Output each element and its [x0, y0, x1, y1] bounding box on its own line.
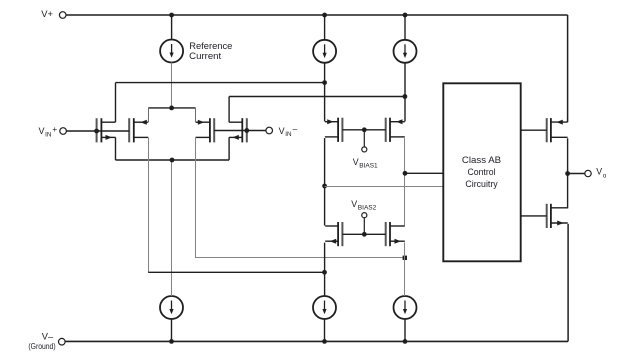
svg-text:Circuitry: Circuitry	[465, 178, 498, 189]
svg-text:V+: V+	[41, 8, 53, 19]
svg-text:Control: Control	[468, 166, 496, 177]
svg-text:IN: IN	[285, 131, 292, 138]
svg-text:–: –	[293, 124, 298, 134]
svg-text:Current: Current	[189, 50, 221, 61]
svg-text:V: V	[39, 126, 45, 136]
svg-text:Class AB: Class AB	[462, 154, 501, 165]
svg-text:o: o	[603, 172, 607, 179]
svg-text:BIAS2: BIAS2	[358, 204, 377, 211]
svg-text:V–: V–	[42, 331, 54, 341]
svg-text:(Ground): (Ground)	[28, 342, 55, 351]
svg-text:BIAS1: BIAS1	[359, 162, 378, 169]
svg-text:+: +	[52, 124, 57, 134]
svg-text:V: V	[351, 199, 357, 209]
svg-text:V: V	[353, 157, 359, 167]
svg-text:V: V	[279, 126, 285, 136]
svg-text:V: V	[596, 167, 602, 177]
svg-text:IN: IN	[45, 131, 52, 138]
